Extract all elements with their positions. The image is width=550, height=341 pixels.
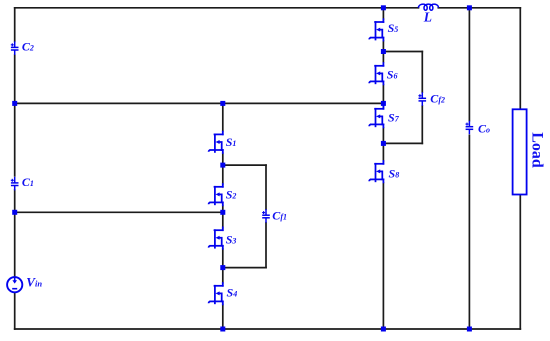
wire S1-S4 column	[222, 103, 224, 329]
node S3-S4 / Cf1 bottom	[220, 265, 225, 270]
transistor S8	[369, 161, 399, 182]
node mid bus left	[12, 101, 17, 106]
transistor S7	[369, 106, 399, 127]
transistor S5	[369, 19, 398, 40]
capacitor Cf1	[262, 208, 287, 222]
node S2-S3 / C1 row right	[220, 210, 225, 215]
wire mid horizontal bus	[15, 102, 384, 104]
wire top bus left segment	[15, 7, 419, 9]
transistor S2	[209, 184, 237, 205]
node S1 top	[220, 101, 225, 106]
node Co top	[467, 5, 472, 10]
wire Co rail	[468, 8, 470, 329]
node S4 bottom	[220, 327, 225, 332]
svg-text:L: L	[423, 10, 432, 25]
capacitor Co	[466, 121, 491, 136]
node S5 top	[381, 5, 386, 10]
node S5-S6 / Cf2 top	[381, 49, 386, 54]
wire S5-S8 column	[382, 8, 384, 329]
node S7-S8 / Cf2 bottom	[381, 141, 386, 146]
svg-text:Load: Load	[528, 132, 545, 168]
capacitor Cf2	[418, 91, 445, 106]
voltage source Vin	[7, 274, 42, 292]
wire Cf1 bottom link	[223, 267, 266, 269]
node S6-S7 / mid bus right	[381, 101, 386, 106]
transistor S3	[209, 227, 237, 248]
wire Cf2 branch vertical	[421, 52, 423, 144]
inductor L	[418, 4, 438, 24]
node Co bottom	[467, 327, 472, 332]
wire top bus right segment	[438, 7, 520, 9]
node S1-S2 / Cf1 top	[220, 163, 225, 168]
transistor S4	[209, 283, 238, 304]
wire Cf2 bottom link	[383, 142, 422, 144]
capacitor C2	[11, 40, 34, 55]
wire Cf1 top link	[223, 164, 266, 166]
wire bottom bus	[15, 328, 521, 330]
wire right load rail	[519, 8, 521, 329]
capacitor C1	[11, 175, 34, 191]
load resistor	[513, 109, 546, 194]
node S8 bottom	[381, 327, 386, 332]
wire Cf2 top link	[383, 51, 422, 53]
transistor S1	[209, 132, 237, 153]
transistor S6	[369, 63, 397, 84]
wire left rail	[14, 8, 16, 329]
node C1 row left	[12, 210, 17, 215]
wire Cf1 branch vertical	[265, 165, 267, 268]
wire C1 row horizontal	[15, 211, 223, 213]
